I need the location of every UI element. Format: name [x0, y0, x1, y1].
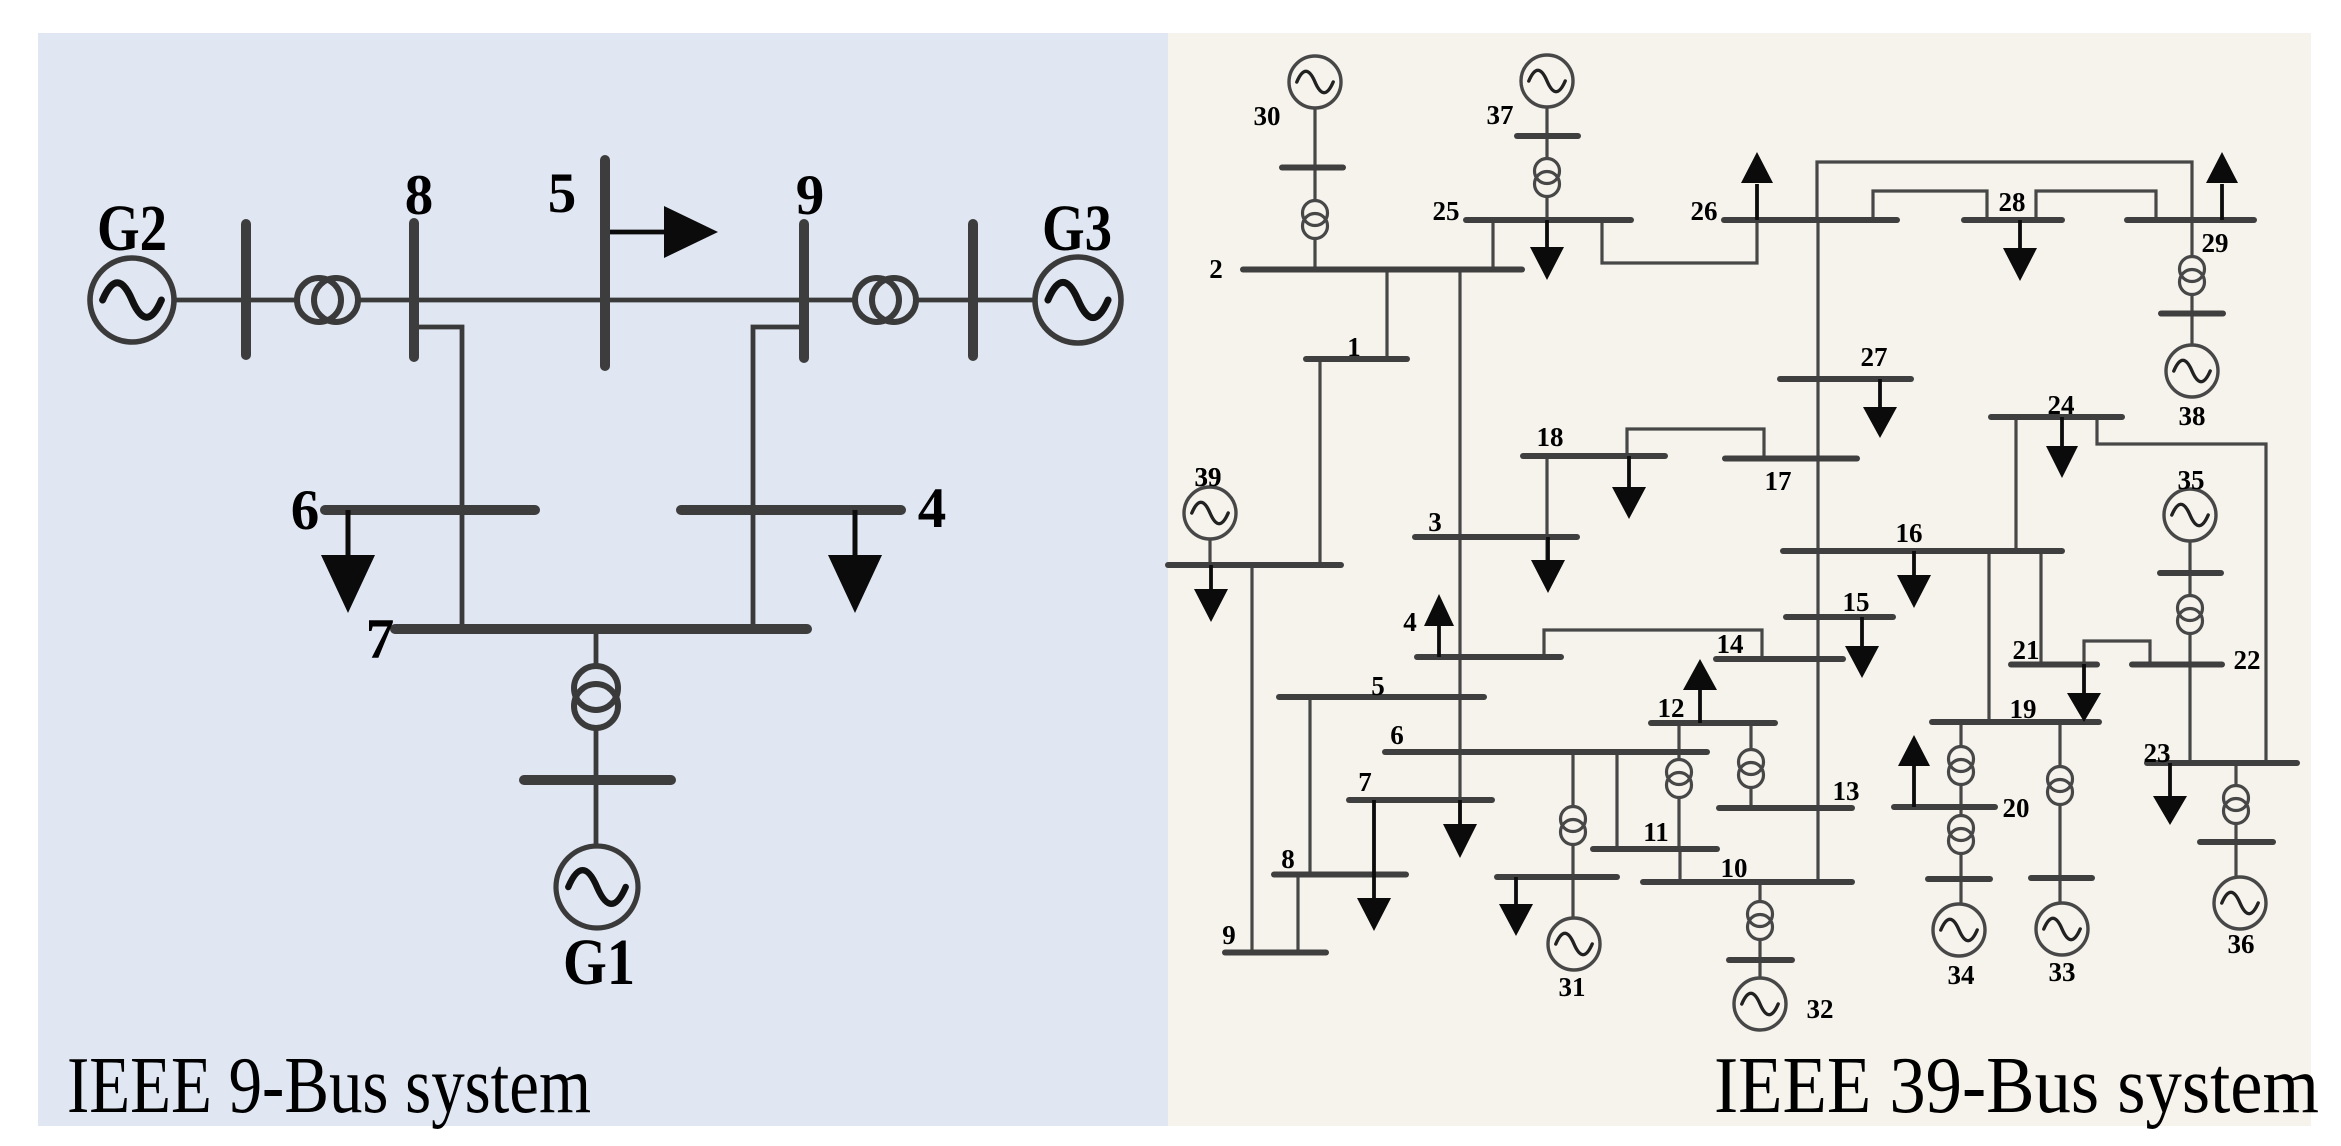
transformer T3 (G3 side)	[855, 278, 916, 322]
load arrow at bus 15	[1845, 617, 1879, 678]
wire line 8-9	[1296, 874, 1299, 952]
wire chain 29-xfmr-38-G38	[2190, 220, 2193, 346]
bus 16	[1783, 518, 2062, 551]
bus 6 bar	[325, 505, 535, 515]
svg-text:18: 18	[1537, 422, 1564, 452]
svg-text:21: 21	[2013, 635, 2040, 665]
svg-text:11: 11	[1643, 817, 1669, 847]
wire line 25-26	[1602, 220, 1757, 263]
bus 28	[1964, 187, 2062, 220]
wire line 18-17 bracket	[1627, 429, 1764, 458]
wire chain G35-xfmr-22	[2188, 541, 2191, 664]
wire line 26-28 bracket	[1873, 191, 1987, 220]
svg-text:37: 37	[1487, 100, 1514, 130]
load arrow at bus 31 bar	[1499, 877, 1533, 936]
transformer bus22-bus35	[2178, 596, 2203, 634]
bus 6 (39-bus)	[1385, 720, 1707, 752]
right panel background (IEEE 39-bus)	[1168, 33, 2311, 1126]
wire bus 9 to transformer T3	[804, 298, 858, 303]
svg-text:27: 27	[1861, 342, 1888, 372]
svg-text:33: 33	[2049, 957, 2076, 987]
svg-text:17: 17	[1765, 466, 1792, 496]
wire transformer T3 to breaker bar	[914, 298, 973, 303]
load arrow at bus 23	[2153, 763, 2187, 825]
wire chain 20-xfmr-34-G34	[1959, 807, 1962, 905]
svg-text:19: 19	[2010, 694, 2037, 724]
svg-text:5: 5	[548, 162, 577, 225]
wire line 39-9	[1250, 565, 1253, 952]
wire chain 19-xfmr-33-G33	[2058, 722, 2061, 904]
svg-text:13: 13	[1833, 776, 1860, 806]
wire bus 9 branch down to bus 7	[753, 327, 804, 629]
wire bus 7 down to transformer T1	[594, 629, 599, 668]
generator G1	[556, 846, 638, 928]
bus 35 terminal bar	[2160, 570, 2221, 576]
wire line 16-24	[2014, 417, 2017, 551]
svg-text:32: 32	[1807, 994, 1834, 1024]
load arrow at bus 5 pointing right	[605, 206, 718, 258]
bus 24	[1991, 390, 2122, 420]
wire line 26-29 over the top	[1817, 162, 2192, 220]
wire breaker bar to transformer T2	[246, 298, 300, 303]
bus 27	[1780, 342, 1911, 379]
transformer bus6-bus31	[1561, 807, 1586, 845]
generator 30	[1289, 56, 1341, 108]
wire line 16-19	[1987, 551, 1990, 722]
bus 14	[1716, 629, 1843, 659]
generator 31	[1548, 918, 1600, 970]
svg-text:31: 31	[1559, 972, 1586, 1002]
bus 9 bar	[799, 224, 809, 358]
bus 19	[1932, 694, 2099, 724]
wire breaker bar to G3	[973, 298, 1037, 303]
generator 33	[2036, 903, 2088, 955]
wire line 22-23	[2188, 664, 2191, 763]
bus 39	[1168, 462, 1341, 565]
svg-text:8: 8	[1281, 844, 1295, 874]
bus 22	[2132, 645, 2261, 675]
wire line 21-22 bracket	[2084, 641, 2150, 664]
wire chain 6-xfmr-31-G31	[1571, 752, 1574, 919]
svg-text:30: 30	[1254, 101, 1281, 131]
load arrow at bus 3	[1531, 537, 1565, 593]
wire G2 to breaker bar	[174, 298, 246, 303]
wire bus 8 branch down to bus 7	[414, 327, 462, 629]
wire generator 30 chain to bus 2	[1313, 108, 1316, 269]
wire generator 37 chain to bus 25	[1545, 107, 1548, 220]
load arrow at bus 18	[1612, 456, 1646, 519]
wire G39 stub	[1208, 538, 1211, 565]
svg-text:IEEE 39-Bus system: IEEE 39-Bus system	[1714, 1042, 2319, 1130]
transformer bus10-bus32	[1748, 902, 1773, 940]
bus 25	[1433, 196, 1632, 226]
svg-text:7: 7	[366, 608, 395, 671]
svg-text:4: 4	[1403, 607, 1417, 637]
wire bus 8 to bus 9 through bus 5	[414, 298, 804, 303]
transformer bus19-bus20	[1949, 747, 1974, 785]
injection arrow at bus 12	[1683, 659, 1717, 723]
lower breaker bar above G1	[524, 775, 671, 785]
bus 7 (39-bus)	[1349, 767, 1492, 800]
wire transformer T2 to bus 8	[356, 298, 414, 303]
wire transformer T1 to lower breaker bar	[594, 726, 599, 780]
transformer T2 (G2 side)	[297, 278, 358, 322]
transformer T1 (G1 side)	[574, 666, 618, 728]
load arrow at bus 24	[2046, 417, 2078, 478]
bus 18	[1523, 422, 1665, 456]
generator 36	[2214, 877, 2266, 929]
wire line 24-23 around the right	[2097, 417, 2266, 763]
generator G3	[1035, 257, 1121, 343]
bus 23	[2144, 738, 2298, 768]
generator 39	[1184, 487, 1236, 539]
wire chain 10-xfmr-32-G32	[1758, 882, 1761, 979]
wire chain 19-xfmr-20	[1959, 722, 1962, 807]
svg-text:9: 9	[796, 164, 825, 227]
bus 5 bar	[600, 160, 610, 366]
svg-text:G1: G1	[563, 926, 635, 999]
svg-text:39: 39	[1195, 462, 1222, 492]
svg-text:2: 2	[1209, 254, 1223, 284]
svg-text:28: 28	[1999, 187, 2026, 217]
bus 31 terminal bar	[1497, 874, 1617, 880]
svg-text:4: 4	[918, 477, 947, 540]
breaker bar right of transformer T3	[968, 224, 978, 356]
generator 34	[1933, 904, 1985, 956]
bus 2	[1209, 254, 1522, 284]
svg-text:G2: G2	[97, 192, 167, 265]
svg-text:23: 23	[2144, 738, 2171, 768]
bus 32 terminal bar	[1729, 957, 1792, 963]
bus 37 terminal bar	[1517, 133, 1578, 139]
bus 7 bar	[395, 624, 807, 634]
wire line 1-39	[1318, 359, 1321, 565]
transformer bus19-bus33	[2048, 767, 2073, 805]
svg-text:26: 26	[1691, 196, 1718, 226]
bus 20	[1894, 793, 2030, 823]
load arrow at bus 25	[1530, 220, 1564, 280]
wire line 11-10	[1678, 849, 1681, 882]
load arrow at bus 16	[1897, 551, 1931, 608]
bus 1	[1306, 332, 1407, 362]
svg-text:6: 6	[1390, 720, 1404, 750]
load arrow at bus 6	[321, 510, 375, 613]
load arrow at bus 27	[1863, 379, 1897, 438]
wire line 4-14 bracket	[1544, 630, 1762, 659]
generator 37	[1521, 55, 1573, 107]
generator 35	[2164, 489, 2216, 541]
load arrow below bus 7 on line 3-7	[1443, 800, 1477, 858]
bus 21	[2011, 635, 2097, 665]
svg-text:15: 15	[1843, 587, 1870, 617]
bus 17	[1725, 459, 1857, 497]
transformer bus30-bus2	[1303, 201, 1328, 239]
generator 32	[1734, 978, 1786, 1030]
bus 11	[1593, 817, 1717, 849]
svg-text:36: 36	[2228, 929, 2255, 959]
bus 33 terminal bar	[2031, 875, 2092, 881]
wire line 18-3 with load	[1545, 456, 1548, 562]
svg-text:25: 25	[1433, 196, 1460, 226]
wire line 2-1	[1385, 269, 1388, 359]
wire lower breaker bar to G1	[594, 780, 599, 848]
bus 13	[1719, 776, 1860, 808]
bus 3	[1415, 507, 1577, 537]
bus 8 bar	[409, 223, 419, 357]
svg-text:16: 16	[1896, 518, 1923, 548]
bus 30 terminal bar	[1282, 165, 1343, 171]
wire chain 12-xfmr-13	[1749, 723, 1752, 808]
wire line 26-27-17-16-15-14-13-10 vertical	[1816, 220, 1819, 882]
injection arrow at bus 4	[1424, 594, 1454, 657]
injection arrow at bus 20	[1898, 735, 1930, 807]
transformer bus12-bus13	[1739, 750, 1764, 788]
transformer bus20-bus34	[1949, 816, 1974, 854]
generator G2	[90, 258, 174, 342]
left panel background (IEEE 9-bus)	[38, 33, 1168, 1126]
load arrow at bus 7 (39-bus)	[1357, 800, 1391, 931]
svg-text:3: 3	[1428, 507, 1442, 537]
svg-text:22: 22	[2234, 645, 2261, 675]
bus 29	[2127, 220, 2254, 258]
bus 8 (39-bus)	[1274, 844, 1406, 875]
load arrow at bus 21	[2067, 664, 2101, 722]
wire line 25-2 stub	[1491, 220, 1494, 269]
svg-text:10: 10	[1721, 853, 1748, 883]
svg-text:20: 20	[2003, 793, 2030, 823]
bus 15	[1786, 587, 1893, 617]
svg-text:G3: G3	[1042, 192, 1112, 265]
bus 10	[1643, 853, 1852, 883]
svg-text:IEEE 9-Bus system: IEEE 9-Bus system	[67, 1042, 591, 1130]
wire line 5-8	[1308, 697, 1311, 874]
svg-text:12: 12	[1658, 693, 1685, 723]
bus 12	[1651, 693, 1775, 723]
bus 34 terminal bar	[1928, 876, 1990, 882]
load arrow at bus 28	[2003, 220, 2037, 281]
transformer bus37-bus25	[1535, 159, 1560, 197]
svg-text:24: 24	[2048, 390, 2075, 420]
transformer bus23-bus36	[2224, 786, 2249, 824]
bus 4 (39-bus)	[1403, 607, 1561, 657]
svg-text:14: 14	[1717, 629, 1744, 659]
svg-text:8: 8	[405, 164, 434, 227]
load arrow at bus 39	[1194, 565, 1228, 622]
wire chain 12-xfmr-11	[1677, 723, 1680, 849]
svg-text:5: 5	[1371, 671, 1385, 701]
wire line 16-21	[2039, 551, 2042, 664]
bus 9 (39-bus)	[1222, 920, 1326, 953]
bus 36 terminal bar	[2200, 839, 2273, 845]
generator 38	[2166, 345, 2218, 397]
svg-text:6: 6	[291, 479, 320, 542]
injection arrow at bus 26	[1741, 152, 1773, 220]
wire chain 23-xfmr-36-G36	[2234, 763, 2237, 878]
breaker bar left of transformer T2	[241, 224, 251, 355]
svg-text:9: 9	[1222, 920, 1236, 950]
bus 4 bar	[681, 505, 901, 515]
transformer bus12-bus11	[1667, 760, 1692, 798]
load arrow at bus 4	[828, 510, 882, 613]
wire line 6-11	[1615, 752, 1618, 849]
svg-text:34: 34	[1948, 960, 1975, 990]
bus 38 terminal bar	[2161, 311, 2223, 317]
wire line 2-3-4-5-6-7 vertical	[1458, 269, 1461, 826]
svg-text:29: 29	[2202, 228, 2229, 258]
svg-text:38: 38	[2179, 401, 2206, 431]
svg-text:7: 7	[1358, 767, 1372, 797]
bus 5 (39-bus)	[1279, 671, 1484, 701]
bus 26	[1691, 196, 1898, 226]
transformer bus29-bus38	[2180, 257, 2205, 295]
injection arrow at bus 29	[2206, 152, 2238, 220]
wire line 28-29 bracket	[2036, 191, 2156, 220]
svg-text:35: 35	[2178, 465, 2205, 495]
svg-text:1: 1	[1347, 332, 1361, 362]
